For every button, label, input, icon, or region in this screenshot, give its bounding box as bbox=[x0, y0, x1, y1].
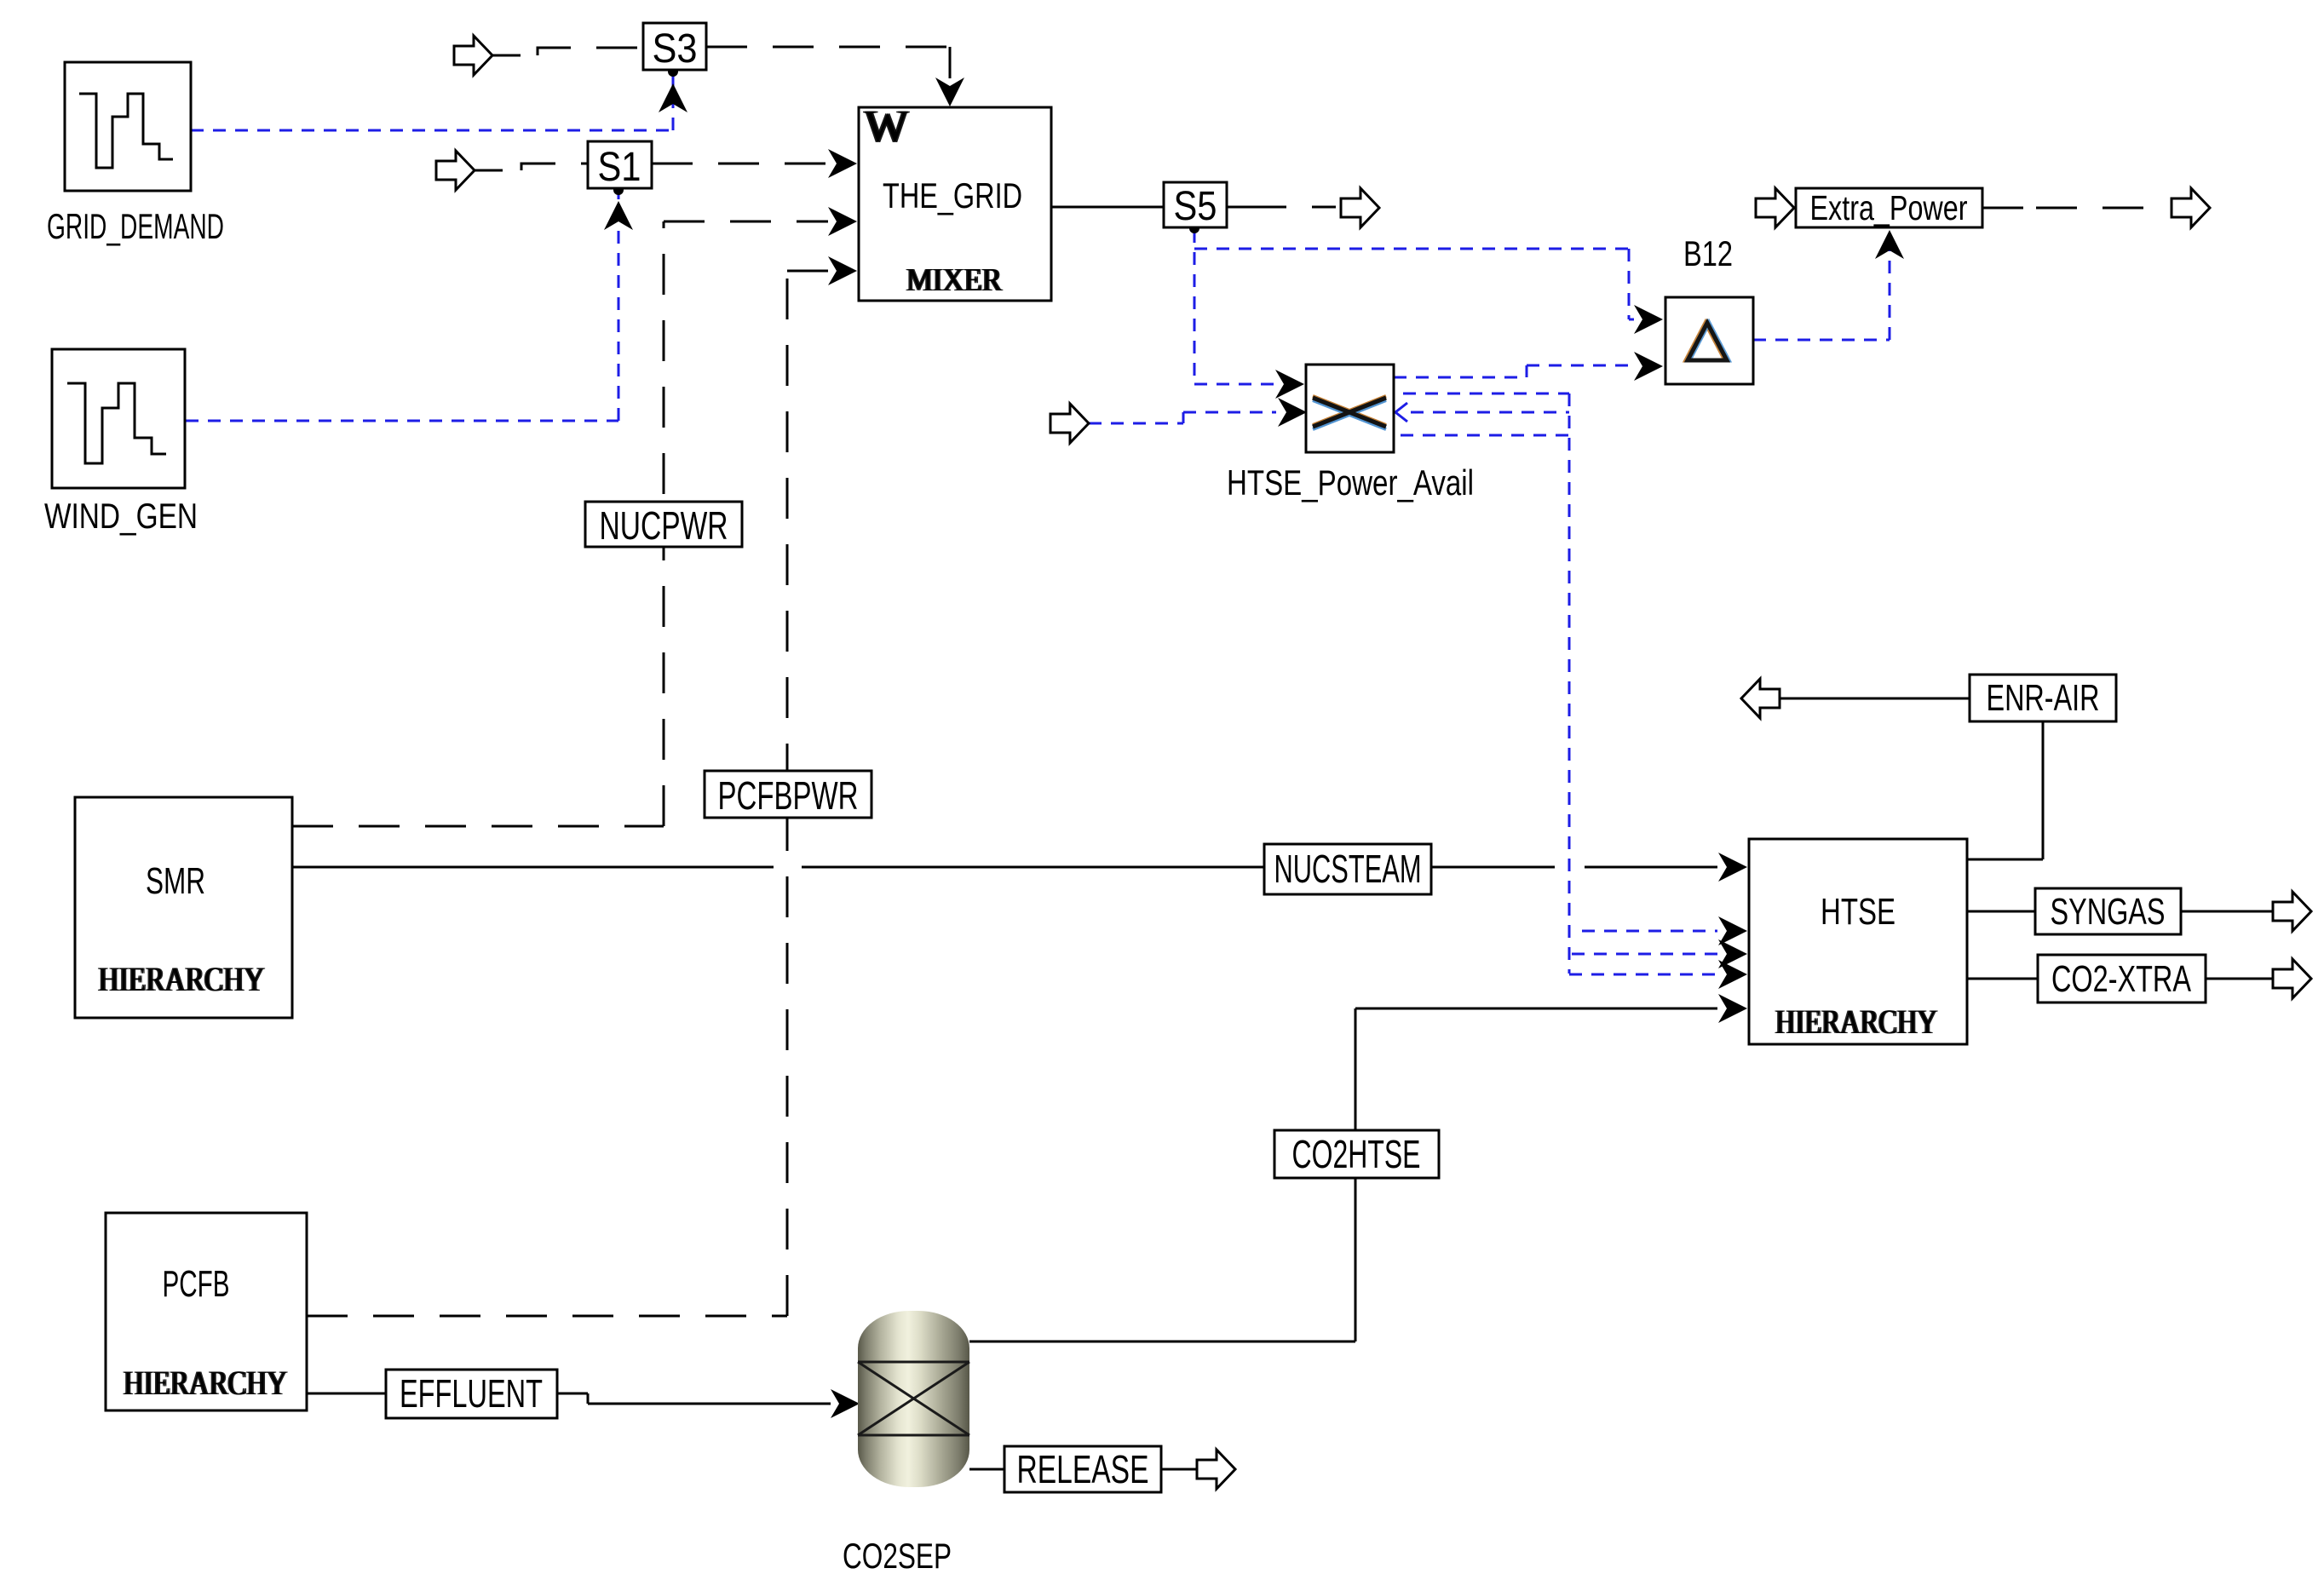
wire: valve output D to riser (blue dashed) bbox=[1401, 434, 1569, 437]
wire: NUCPWR power stream SMR to THE_GRID (black dashed) bbox=[292, 221, 828, 826]
wire: WIND_GEN signal to S1 (blue dashed) bbox=[186, 192, 618, 421]
svg-text:B12: B12 bbox=[1683, 233, 1733, 273]
arrowhead into THE_GRID input2 bbox=[828, 207, 857, 236]
tag SYNGAS bbox=[2035, 888, 2181, 934]
wire: GRID_DEMAND signal to S3 (blue dashed) bbox=[191, 75, 673, 130]
feed arrow S1 bbox=[436, 151, 475, 190]
arrowhead into HTSE CO2HTSE input bbox=[1718, 994, 1747, 1023]
wire: S5 signal into HTSE_Power_Avail input1 (blue dashed) bbox=[1194, 383, 1274, 386]
wire: CO2-XTRA from HTSE (solid + product arrow) bbox=[1967, 978, 2273, 980]
arrowhead into B12 input1 bbox=[1634, 305, 1663, 334]
svg-text:GRID_DEMAND: GRID_DEMAND bbox=[47, 206, 224, 246]
wire: EFFLUENT PCFB to CO2SEP (solid) bbox=[307, 1393, 831, 1404]
tag Extra_Power bbox=[1796, 188, 1982, 227]
tag NUCSTEAM bbox=[1264, 844, 1431, 894]
wire: Extra_Power out (solid stub + black dashed + product arrow) bbox=[1982, 207, 2157, 210]
wire: ENR-AIR from HTSE to export (solid) bbox=[1780, 698, 2043, 859]
svg-text:S3: S3 bbox=[653, 26, 698, 72]
svg-text:HTSE_Power_Avail: HTSE_Power_Avail bbox=[1227, 462, 1474, 503]
wire: S3 to THE_GRID top (black dashed) bbox=[706, 47, 950, 78]
block HTSE_Power_Avail (mult valve) bbox=[1227, 365, 1474, 503]
tag S5 bbox=[1164, 182, 1227, 229]
block HTSE hierarchy bbox=[1749, 839, 1967, 1044]
block B12 delta bbox=[1665, 233, 1753, 384]
svg-text:PCFBPWR: PCFBPWR bbox=[718, 773, 859, 818]
product arrow after S5 bbox=[1341, 188, 1379, 227]
svg-text:S5: S5 bbox=[1174, 184, 1217, 229]
wire: feed arrow into Extra_Power bbox=[1756, 188, 1794, 227]
tag EFFLUENT bbox=[386, 1370, 557, 1418]
tag S1 bbox=[588, 141, 652, 190]
tag CO2-XTRA bbox=[2038, 955, 2206, 1002]
arrowhead into CO2SEP bbox=[831, 1389, 860, 1418]
block THE_GRID (mixer) bbox=[859, 101, 1051, 301]
svg-text:RELEASE: RELEASE bbox=[1017, 1447, 1149, 1491]
arrowhead into THE_GRID top bbox=[935, 78, 964, 106]
wire: feed stream into S1 (black dashed with feed arrow) bbox=[475, 164, 588, 170]
wire: S5 product out (dashed + open arrow) bbox=[1227, 206, 1336, 209]
wire: riser signals into HTSE (blue dashed) bbox=[1569, 931, 1717, 974]
tag CO2HTSE bbox=[1274, 1130, 1439, 1178]
wire: THE_GRID to S5 (solid) bbox=[1051, 206, 1164, 209]
tag NUCPWR bbox=[585, 502, 742, 548]
svg-text:W: W bbox=[865, 101, 908, 152]
tag PCFBPWR bbox=[705, 771, 871, 818]
block PCFB hierarchy bbox=[106, 1213, 307, 1410]
svg-text:PCFB: PCFB bbox=[163, 1263, 230, 1305]
wire: feed stream into S3 (black dashed with feed arrow) bbox=[492, 48, 643, 55]
node dot S3 bottom bbox=[668, 66, 678, 77]
block GRID_DEMAND bbox=[47, 62, 224, 246]
svg-text:HTSE: HTSE bbox=[1821, 891, 1895, 933]
node dot S5 bottom bbox=[1189, 223, 1199, 233]
arrowhead into valve input2 bbox=[1278, 398, 1307, 427]
block CO2SEP vessel bbox=[843, 1311, 969, 1574]
arrowhead up into S1 bottom bbox=[604, 201, 633, 230]
svg-text:S1: S1 bbox=[598, 145, 641, 190]
wire: valve output B down the shared riser (blue dashed) bbox=[1403, 393, 1569, 974]
wire: CO2SEP to RELEASE and product arrow (solid) bbox=[969, 1468, 1197, 1471]
svg-text:THE_GRID: THE_GRID bbox=[883, 175, 1022, 215]
block SMR hierarchy bbox=[75, 797, 292, 1018]
arrowhead into valve input1 bbox=[1275, 370, 1304, 399]
svg-text:ENR-AIR: ENR-AIR bbox=[1987, 677, 2100, 719]
svg-text:Extra_Power: Extra_Power bbox=[1810, 188, 1968, 227]
arrowhead up into S3 bottom bbox=[659, 83, 687, 112]
svg-text:NUCSTEAM: NUCSTEAM bbox=[1274, 847, 1422, 891]
svg-text:CO2-XTRA: CO2-XTRA bbox=[2051, 958, 2191, 1000]
wire: CO2HTSE CO2SEP to HTSE (solid) bbox=[969, 1008, 1717, 1341]
wire: S5 signal down + to B12 input1 (blue dashed) bbox=[1194, 230, 1634, 384]
feed arrow for valve input2 bbox=[1050, 404, 1089, 443]
wire: feed signal into HTSE_Power_Avail input2 (blue dashed) bbox=[1089, 412, 1276, 423]
svg-text:WIND_GEN: WIND_GEN bbox=[44, 496, 198, 536]
arrowhead into B12 input2 bbox=[1634, 352, 1663, 381]
svg-text:SYNGAS: SYNGAS bbox=[2051, 891, 2166, 933]
arrowheads into HTSE signal inputs bbox=[1718, 916, 1747, 945]
tag S3 bbox=[643, 23, 706, 72]
svg-text:NUCPWR: NUCPWR bbox=[600, 503, 728, 548]
node dot S1 bottom bbox=[613, 185, 624, 195]
tag ENR-AIR bbox=[1970, 675, 2116, 721]
svg-text:CO2SEP: CO2SEP bbox=[843, 1536, 952, 1574]
arrowhead into HTSE NUCSTEAM input bbox=[1718, 853, 1747, 882]
feed arrow S3 bbox=[454, 36, 492, 75]
svg-text:EFFLUENT: EFFLUENT bbox=[400, 1371, 543, 1416]
wire: signal into valve right side (blue dashed, arrow pointing left) bbox=[1411, 411, 1569, 414]
arrowhead into Extra_Power bottom bbox=[1875, 230, 1904, 259]
wire: B12 output to Extra_Power (blue dashed) bbox=[1753, 245, 1890, 340]
wire: S1 to THE_GRID input1 (black dashed) bbox=[652, 163, 831, 165]
svg-text:MIXER: MIXER bbox=[906, 262, 1003, 298]
wire: PCFBPWR power stream PCFB to THE_GRID (black dashed) bbox=[307, 271, 828, 1316]
tag RELEASE bbox=[1004, 1446, 1161, 1492]
wire: NUCSTEAM SMR to HTSE (solid, with crossing gaps) bbox=[292, 866, 1717, 869]
export arrow ENR-AIR (points left) bbox=[1741, 679, 1780, 718]
svg-text:HIERARCHY: HIERARCHY bbox=[1775, 1002, 1937, 1041]
arrowhead into THE_GRID input3 bbox=[828, 256, 857, 285]
svg-text:HIERARCHY: HIERARCHY bbox=[124, 1364, 287, 1402]
wire: valve output A to B12 input2 (blue dashed) bbox=[1394, 365, 1634, 377]
arrowhead into THE_GRID input1 bbox=[828, 149, 857, 178]
svg-text:SMR: SMR bbox=[146, 860, 205, 902]
block WIND_GEN bbox=[44, 349, 198, 536]
svg-text:CO2HTSE: CO2HTSE bbox=[1292, 1132, 1421, 1176]
svg-text:HIERARCHY: HIERARCHY bbox=[99, 960, 265, 998]
wire: SYNGAS from HTSE (solid + product arrow) bbox=[1967, 911, 2273, 913]
